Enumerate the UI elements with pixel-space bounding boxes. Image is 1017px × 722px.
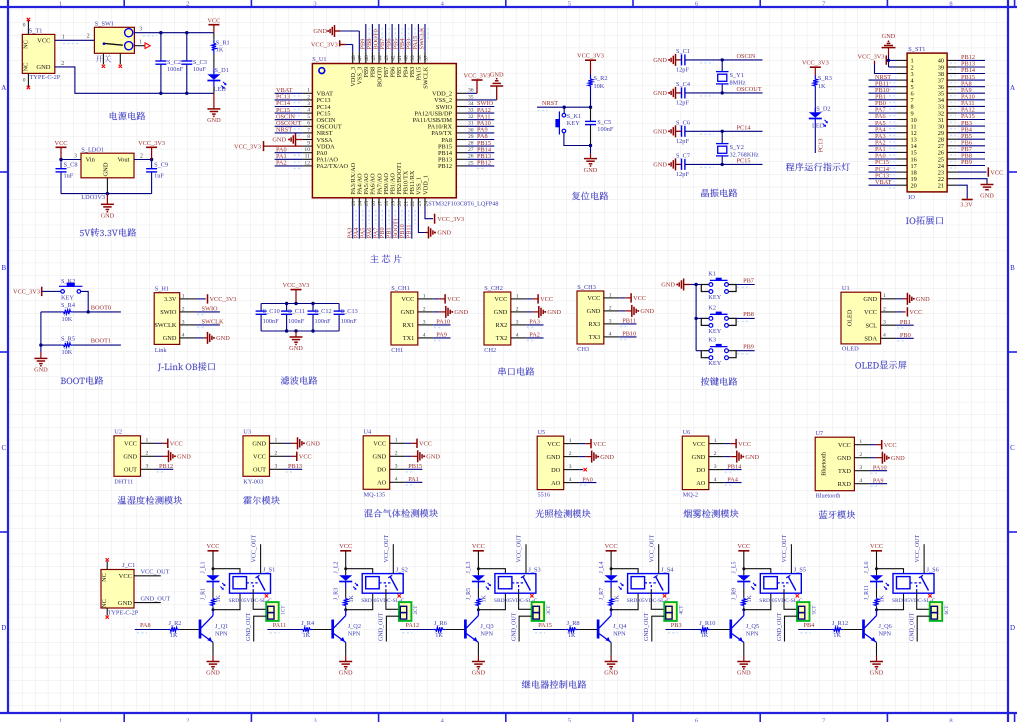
- power port GND: [653, 158, 681, 170]
- svg-text:3: 3: [395, 464, 398, 470]
- svg-text:37: 37: [423, 55, 429, 61]
- svg-text:1: 1: [609, 292, 612, 298]
- svg-text:8: 8: [949, 718, 952, 722]
- power port VCC_3V3 (ST1 pin1): [858, 53, 897, 65]
- svg-text:1: 1: [139, 40, 142, 46]
- svg-text:GND: GND: [653, 57, 667, 64]
- no connect: [579, 468, 587, 471]
- svg-text:GND: GND: [206, 670, 220, 677]
- svg-text:NC: NC: [101, 573, 108, 582]
- label 烟雾检测模块: [684, 509, 739, 518]
- svg-text:VCC: VCC: [540, 296, 553, 303]
- label 继电器控制电路: [522, 680, 586, 688]
- capacitor S_C8 1uF: [56, 160, 78, 194]
- svg-text:PC14: PC14: [737, 124, 752, 131]
- svg-text:S_C9: S_C9: [154, 162, 168, 169]
- module U3 (KY-003): [243, 429, 285, 486]
- svg-text:S_C8: S_C8: [64, 162, 78, 169]
- label 5V转3.3V电路: [80, 228, 136, 237]
- svg-text:3: 3: [714, 464, 717, 470]
- svg-text:NPN: NPN: [348, 630, 361, 637]
- power port GND (MCU pin35 VSS_2): [467, 71, 504, 100]
- svg-text:RXD: RXD: [838, 481, 852, 488]
- net label PA4: [724, 476, 741, 485]
- power port GND: [653, 54, 681, 66]
- resistor J_R6 1K: [433, 620, 465, 639]
- svg-text:S_C10: S_C10: [263, 308, 280, 315]
- svg-text:1K: 1K: [701, 632, 709, 639]
- net label GND_OUT (ch1): [246, 612, 266, 641]
- svg-text:VCC: VCC: [605, 543, 618, 550]
- resistor J_R10 1K: [699, 620, 731, 639]
- svg-text:VCC: VCC: [299, 454, 312, 461]
- svg-text:KEY: KEY: [708, 294, 721, 301]
- svg-text:VCC_OUT: VCC_OUT: [915, 534, 921, 562]
- svg-text:KEY: KEY: [708, 328, 721, 335]
- svg-text:U3: U3: [243, 429, 251, 436]
- svg-text:4: 4: [859, 478, 862, 484]
- junction: [589, 144, 592, 147]
- svg-text:14: 14: [358, 201, 364, 207]
- svg-text:SWCLK: SWCLK: [419, 27, 426, 49]
- svg-text:GND: GND: [36, 64, 50, 71]
- relay J_S4 SRD-05VDC-SL-C: [627, 566, 675, 604]
- svg-text:VCC_3V3: VCC_3V3: [234, 143, 261, 150]
- net label PC15 wire: [685, 157, 763, 167]
- svg-text:GND: GND: [401, 309, 415, 316]
- svg-text:3: 3: [516, 319, 519, 325]
- net label PB9: [736, 344, 755, 354]
- power port VCC (relay ch6): [870, 543, 883, 569]
- svg-text:SWCLK: SWCLK: [422, 66, 429, 88]
- power port GND (MCU pin8 VSSA): [272, 134, 302, 146]
- svg-text:1: 1: [569, 438, 572, 444]
- svg-text:45: 45: [371, 55, 377, 61]
- resistor S_R3 1K: [813, 75, 832, 112]
- net label VCC_OUT (ch5): [782, 534, 791, 573]
- svg-text:VCC: VCC: [401, 296, 414, 303]
- power port GND: [579, 451, 614, 463]
- svg-text:21: 21: [404, 201, 410, 207]
- svg-text:GND_OUT: GND_OUT: [777, 612, 783, 641]
- svg-text:2: 2: [423, 306, 426, 312]
- net label PB15: [405, 463, 422, 472]
- svg-text:5: 5: [307, 114, 310, 120]
- svg-text:VCC_3V3: VCC_3V3: [13, 289, 40, 296]
- power port VCC: [285, 452, 312, 461]
- label 电源电路: [110, 112, 145, 120]
- svg-text:4: 4: [609, 331, 612, 337]
- svg-text:2: 2: [146, 451, 149, 457]
- svg-text:TYPE-C-2P: TYPE-C-2P: [108, 610, 139, 617]
- net label PA8 (relay ch1 input): [135, 622, 177, 633]
- svg-text:PA15: PA15: [538, 622, 552, 629]
- svg-text:VCC_OUT: VCC_OUT: [251, 534, 257, 562]
- power port VCC (relay ch5): [737, 543, 750, 569]
- wire: [784, 590, 797, 609]
- svg-text:12pF: 12pF: [676, 66, 689, 73]
- relay J_S5 SRD-05VDC-SL-C: [759, 566, 806, 604]
- svg-text:GND: GND: [177, 454, 191, 461]
- svg-text:GND: GND: [472, 670, 486, 677]
- svg-text:GND: GND: [437, 230, 451, 237]
- power port VCC (ST1 pin23): [957, 167, 1003, 176]
- svg-text:VCC: VCC: [864, 309, 877, 316]
- svg-text:GND: GND: [426, 454, 440, 461]
- transistor J_Q3 NPN: [465, 610, 493, 643]
- svg-text:S_K2: S_K2: [61, 278, 75, 285]
- transistor J_Q5 NPN: [731, 610, 759, 643]
- power port VCC: [405, 439, 432, 448]
- svg-text:GND: GND: [745, 454, 759, 461]
- label 温湿度检测模块: [118, 496, 182, 505]
- svg-text:43: 43: [384, 55, 390, 61]
- svg-text:Bluetooth: Bluetooth: [822, 452, 828, 476]
- resistor J_R5 1K: [466, 588, 488, 610]
- svg-text:3: 3: [609, 318, 612, 324]
- net labels right of S_ST1: [950, 54, 985, 168]
- power port GND (U1 pin1): [897, 293, 930, 305]
- svg-text:VCC_3V3: VCC_3V3: [138, 140, 165, 147]
- svg-text:J_L5: J_L5: [732, 562, 738, 574]
- svg-text:10uF: 10uF: [193, 66, 206, 73]
- junction: [563, 106, 593, 109]
- svg-text:VCC: VCC: [55, 140, 68, 147]
- svg-text:J_R12: J_R12: [832, 620, 848, 627]
- svg-text:1K: 1K: [435, 632, 443, 639]
- svg-text:3: 3: [313, 718, 316, 722]
- svg-text:GND: GND: [980, 193, 994, 200]
- ground: [472, 642, 486, 676]
- pushbutton K2 KEY: [701, 304, 736, 335]
- svg-text:AO: AO: [696, 480, 706, 487]
- svg-text:6CT: 6CT: [945, 606, 950, 615]
- LED J_L1: [201, 562, 226, 598]
- svg-text:GND: GND: [373, 454, 387, 461]
- resistor J_R8 1K: [566, 620, 598, 639]
- no connect marker: [530, 594, 533, 597]
- ground: [584, 146, 598, 174]
- junction: [159, 31, 188, 34]
- net labels left of MCU: [275, 87, 303, 169]
- svg-text:J_R8: J_R8: [567, 620, 580, 627]
- svg-text:12pF: 12pF: [676, 99, 689, 106]
- svg-text:100nF: 100nF: [288, 318, 305, 325]
- svg-text:NPN: NPN: [480, 630, 493, 637]
- svg-text:GND: GND: [118, 600, 132, 607]
- svg-text:PB15: PB15: [408, 463, 422, 470]
- ground: [206, 642, 220, 676]
- svg-text:16: 16: [371, 201, 377, 207]
- svg-text:S_U1: S_U1: [312, 56, 326, 63]
- svg-text:SCL: SCL: [865, 323, 877, 330]
- svg-text:J_S6: J_S6: [927, 566, 939, 573]
- svg-text:1: 1: [59, 1, 62, 8]
- net label PC14 wire: [685, 124, 763, 134]
- svg-text:NC: NC: [101, 599, 108, 608]
- svg-text:J_S4: J_S4: [661, 566, 674, 573]
- wire: [695, 285, 697, 351]
- transistor J_Q6 NPN: [864, 610, 892, 643]
- svg-text:1K: 1K: [170, 632, 178, 639]
- svg-text:20: 20: [397, 201, 403, 207]
- MCU top pins 48-37: [350, 52, 429, 89]
- svg-text:S_D1: S_D1: [215, 67, 229, 74]
- capacitor S_C2 100nF: [155, 33, 183, 94]
- svg-text:100nF: 100nF: [341, 318, 358, 325]
- connector S_ST1 IO header: [897, 46, 957, 201]
- svg-text:PA0: PA0: [582, 476, 593, 483]
- net label PB0: [897, 332, 914, 341]
- ground: [289, 331, 303, 352]
- svg-text:A: A: [1, 84, 6, 92]
- label 主芯片: [370, 255, 401, 264]
- svg-text:VCC_OUT: VCC_OUT: [782, 534, 788, 562]
- power port VCC_3V3 (H1 pin1): [196, 294, 237, 303]
- svg-text:2: 2: [569, 451, 572, 457]
- wire: [344, 567, 373, 573]
- svg-text:SWCLK: SWCLK: [154, 322, 176, 329]
- svg-text:S_R2: S_R2: [594, 75, 608, 82]
- svg-text:2: 2: [307, 94, 310, 100]
- svg-text:VDD_1: VDD_1: [422, 175, 429, 195]
- svg-text:J_R9: J_R9: [732, 588, 738, 600]
- no connect marker: [796, 594, 799, 597]
- label 光照检测模块: [536, 509, 591, 518]
- svg-text:4CT: 4CT: [680, 606, 685, 615]
- net label PA11 (relay ch2 input): [267, 622, 309, 633]
- svg-text:PA2/TX/AO: PA2/TX/AO: [317, 163, 349, 170]
- connector S_T1 TYPE-C-2P: [22, 18, 65, 89]
- svg-text:U4: U4: [364, 429, 373, 436]
- svg-text:BOOT0: BOOT0: [91, 304, 111, 311]
- ground: [737, 642, 751, 676]
- wire: [696, 350, 701, 352]
- svg-text:GND_OUT: GND_OUT: [379, 612, 385, 641]
- svg-text:S_C6: S_C6: [676, 119, 690, 126]
- svg-text:U7: U7: [816, 430, 824, 437]
- svg-text:VCC_3V3: VCC_3V3: [210, 296, 237, 303]
- wire: [212, 593, 241, 611]
- junction: [150, 158, 153, 161]
- svg-text:VCC: VCC: [207, 543, 220, 550]
- svg-text:GND: GND: [916, 296, 930, 303]
- svg-text:GND: GND: [653, 129, 667, 136]
- svg-text:VCC_OUT: VCC_OUT: [141, 569, 170, 576]
- svg-text:VCC: VCC: [339, 543, 352, 550]
- wire: [610, 567, 639, 573]
- power port GND (ST1 pins1-2): [882, 33, 898, 67]
- svg-text:GND: GND: [870, 670, 884, 677]
- svg-text:RX2: RX2: [495, 322, 507, 329]
- svg-text:PA12: PA12: [405, 622, 419, 629]
- svg-text:PB9: PB9: [743, 344, 754, 351]
- svg-text:B: B: [1, 264, 6, 272]
- svg-text:1: 1: [516, 293, 519, 299]
- svg-text:GND: GND: [494, 309, 508, 316]
- wire: [212, 567, 241, 573]
- svg-text:LED: LED: [812, 123, 825, 130]
- svg-text:K2: K2: [708, 304, 716, 311]
- wire: [519, 590, 532, 609]
- svg-text:GND_OUT: GND_OUT: [511, 612, 517, 641]
- svg-text:3.3V: 3.3V: [164, 296, 177, 303]
- svg-text:S_C11: S_C11: [288, 308, 305, 315]
- ground: [339, 642, 353, 676]
- label IO拓展口: [906, 216, 943, 225]
- svg-text:GND: GND: [272, 137, 286, 144]
- svg-text:1K: 1K: [303, 632, 311, 639]
- net label GND_OUT: [134, 595, 170, 602]
- svg-text:A: A: [1010, 84, 1015, 92]
- svg-text:18: 18: [384, 201, 390, 207]
- svg-text:1K: 1K: [482, 595, 488, 603]
- svg-text:5CT: 5CT: [812, 606, 817, 615]
- MCU bottom pins 13-24: [350, 162, 429, 207]
- svg-text:J_Q5: J_Q5: [746, 623, 759, 630]
- svg-text:PC13: PC13: [818, 139, 825, 153]
- svg-text:1: 1: [883, 293, 886, 299]
- power port VCC_3V3: [283, 282, 310, 304]
- svg-text:3: 3: [423, 319, 426, 325]
- power port VCC_3V3 (MCU pin9 VDDA): [234, 141, 302, 151]
- net label PB4 (relay ch6 input): [798, 622, 840, 633]
- svg-text:PA11: PA11: [273, 622, 287, 629]
- power port GND (MCU pin23 VSS_1): [418, 206, 451, 239]
- svg-text:40: 40: [404, 55, 410, 61]
- net label VCC_OUT (ch4): [649, 534, 658, 573]
- svg-text:VCC: VCC: [207, 18, 220, 25]
- wire: [261, 303, 339, 305]
- svg-text:J_R3: J_R3: [333, 588, 339, 600]
- wire: [61, 159, 81, 161]
- svg-text:3.3V: 3.3V: [960, 201, 973, 208]
- power port GND (ST1 pin22): [957, 179, 994, 200]
- no connect marker: [663, 594, 666, 597]
- power port VCC: [207, 18, 220, 33]
- svg-text:VCC: VCC: [587, 295, 600, 302]
- svg-text:VCC: VCC: [547, 441, 560, 448]
- svg-text:CH2: CH2: [484, 347, 496, 354]
- svg-text:1uF: 1uF: [154, 172, 164, 179]
- svg-text:VCC: VCC: [124, 441, 137, 448]
- screw terminal ch4: [664, 602, 684, 621]
- svg-text:4: 4: [569, 477, 572, 483]
- svg-text:GND: GND: [891, 455, 905, 462]
- crystal S_Y2 32.768KHz: [716, 131, 759, 164]
- svg-text:2: 2: [87, 34, 90, 40]
- net label GND_OUT (ch5): [777, 612, 797, 641]
- svg-text:1K: 1K: [349, 595, 355, 603]
- svg-text:1: 1: [859, 439, 862, 445]
- svg-text:1uF: 1uF: [64, 172, 74, 179]
- MCU right pins 36-25: [413, 88, 474, 171]
- svg-text:TYPE-C-2P: TYPE-C-2P: [30, 74, 61, 81]
- module U6 (MQ-2): [682, 429, 724, 499]
- module U5 (5516): [537, 429, 579, 499]
- svg-text:42: 42: [391, 55, 397, 61]
- module U4 (MQ-135): [363, 429, 405, 499]
- svg-text:GND: GND: [207, 117, 221, 124]
- transistor J_Q4 NPN: [598, 610, 627, 643]
- net label PB11: [619, 318, 636, 327]
- svg-text:6: 6: [307, 121, 310, 127]
- svg-text:VCC_OUT: VCC_OUT: [649, 534, 655, 562]
- power port VCC_3V3 (MCU pin24 VDD_1): [425, 206, 464, 224]
- svg-text:1K: 1K: [818, 83, 826, 90]
- junction: [285, 329, 315, 332]
- svg-text:4: 4: [714, 477, 717, 483]
- net label PA9: [433, 332, 450, 341]
- capacitor S_C9 1uF: [146, 160, 168, 194]
- svg-text:3: 3: [883, 320, 886, 326]
- junction: [285, 302, 315, 305]
- svg-text:CH1: CH1: [391, 347, 403, 354]
- connector S_CH1: [391, 285, 433, 354]
- junction: [87, 310, 90, 313]
- svg-text:0: 0: [23, 78, 26, 84]
- net label VCC_OUT (ch1): [251, 534, 260, 573]
- resistor S_R4 10K / net BOOT0: [41, 302, 121, 323]
- svg-text:VCC_OUT: VCC_OUT: [517, 534, 523, 562]
- svg-text:1: 1: [62, 34, 65, 40]
- label 蓝牙模块: [819, 510, 855, 519]
- svg-text:15: 15: [364, 201, 370, 207]
- label BOOT电路: [61, 376, 103, 384]
- svg-text:J_Q2: J_Q2: [348, 623, 361, 630]
- resistor J_R11 1K: [864, 585, 886, 610]
- svg-text:39: 39: [410, 55, 416, 61]
- svg-text:PA9: PA9: [873, 477, 884, 484]
- label 晶振电路: [701, 189, 737, 197]
- junction: [159, 92, 188, 95]
- power port GND: [653, 125, 681, 137]
- svg-text:VCC: VCC: [593, 441, 606, 448]
- svg-text:2: 2: [609, 305, 612, 311]
- svg-text:VCC: VCC: [990, 169, 1003, 176]
- svg-text:GND: GND: [837, 455, 851, 462]
- svg-text:Link: Link: [155, 347, 168, 354]
- power port GND: [433, 306, 468, 318]
- capacitor S_C6 12pF: [676, 119, 690, 145]
- module U2 (DHT11): [114, 429, 156, 486]
- svg-text:GND: GND: [34, 367, 48, 374]
- svg-text:1: 1: [395, 438, 398, 444]
- label 滤波电路: [281, 376, 318, 385]
- svg-text:GND: GND: [216, 335, 230, 342]
- svg-text:S_CH2: S_CH2: [484, 285, 503, 292]
- svg-text:VCC: VCC: [494, 296, 507, 303]
- LED J_L2: [333, 562, 358, 598]
- svg-text:J_L4: J_L4: [599, 562, 605, 574]
- svg-text:GND_OUT: GND_OUT: [910, 612, 916, 641]
- svg-text:12: 12: [304, 160, 310, 166]
- svg-text:PA4: PA4: [727, 476, 738, 483]
- svg-text:K3: K3: [708, 337, 716, 344]
- svg-text:0: 0: [23, 23, 26, 29]
- svg-text:D: D: [1, 624, 6, 632]
- LED J_L3: [466, 562, 491, 598]
- svg-text:PA3: PA3: [529, 319, 540, 326]
- svg-text:13: 13: [351, 201, 357, 207]
- svg-text:NPN: NPN: [879, 630, 892, 637]
- svg-text:VCC: VCC: [738, 441, 751, 448]
- svg-text:8MHz: 8MHz: [730, 79, 746, 86]
- svg-text:VCC_3V3: VCC_3V3: [283, 282, 310, 289]
- svg-text:44: 44: [377, 55, 383, 61]
- svg-text:GND: GND: [653, 162, 667, 169]
- svg-text:S_C13: S_C13: [341, 308, 358, 315]
